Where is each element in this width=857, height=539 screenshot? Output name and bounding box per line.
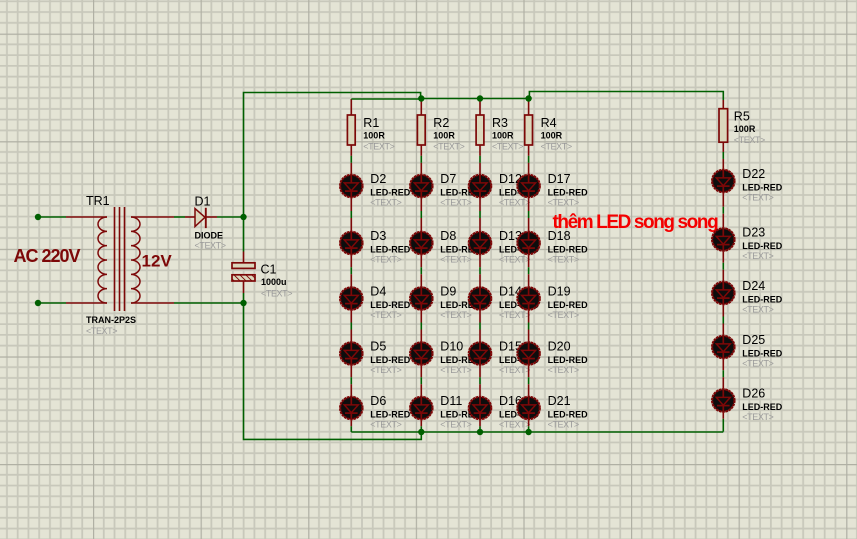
svg-text:LED-RED: LED-RED <box>370 355 410 365</box>
node F: D16 bottom junction <box>477 429 483 435</box>
svg-text:D1: D1 <box>195 195 211 209</box>
svg-text:<TEXT>: <TEXT> <box>499 255 530 265</box>
LED D23 <box>712 227 734 252</box>
wire: top bus middle segment R2-R4 <box>421 98 530 100</box>
resistor R4 <box>525 115 533 145</box>
wire: D15 to D16 <box>479 366 481 396</box>
wire: D8 to D9 <box>420 255 422 286</box>
svg-text:C1: C1 <box>261 263 277 277</box>
wire: top terminal to TR1 primary <box>41 216 107 218</box>
node D: R4 top junction <box>525 95 531 101</box>
wire: D20 to D21 <box>528 366 530 396</box>
wire: D7 to D8 <box>420 198 422 230</box>
wire: R3 to D12 <box>479 145 481 174</box>
svg-text:R3: R3 <box>492 116 508 130</box>
wire: bottom terminal to TR1 primary <box>41 302 107 304</box>
node E: D11 bottom junction <box>418 429 424 435</box>
svg-text:<TEXT>: <TEXT> <box>86 326 117 336</box>
wire: TR1 secondary top to D1 anode <box>131 216 195 218</box>
wire: node A up and top bus left segment <box>244 93 421 218</box>
svg-text:D4: D4 <box>370 285 386 299</box>
svg-text:<TEXT>: <TEXT> <box>440 420 471 430</box>
svg-text:D11: D11 <box>440 394 462 408</box>
node C: R3 top junction <box>477 95 483 101</box>
wire: D18 to D19 <box>528 255 530 286</box>
svg-text:D5: D5 <box>370 340 386 354</box>
svg-text:D8: D8 <box>440 229 456 243</box>
svg-text:LED-RED: LED-RED <box>742 182 782 192</box>
LED D2 <box>340 174 362 199</box>
svg-text:AC 220V: AC 220V <box>14 246 81 266</box>
LED D3 <box>340 231 362 256</box>
svg-text:LED-RED: LED-RED <box>548 355 588 365</box>
svg-text:<TEXT>: <TEXT> <box>541 142 572 152</box>
LED D6 <box>340 396 362 421</box>
wire: node H loop down to bottom bus at D11 column <box>244 303 422 439</box>
LED D4 <box>340 286 362 311</box>
LED D18 <box>517 231 539 256</box>
diode D1 <box>195 208 206 228</box>
svg-text:1000u: 1000u <box>261 277 287 287</box>
svg-text:<TEXT>: <TEXT> <box>370 198 401 208</box>
svg-text:<TEXT>: <TEXT> <box>370 365 401 375</box>
svg-text:<TEXT>: <TEXT> <box>548 198 579 208</box>
svg-text:<TEXT>: <TEXT> <box>499 420 530 430</box>
wire: R5 to D22 <box>722 142 724 169</box>
LED D26 <box>712 388 734 413</box>
capacitor C1 <box>232 263 255 281</box>
wire: C1 bottom to node H <box>243 281 245 303</box>
svg-text:LED-RED: LED-RED <box>548 409 588 419</box>
LED D19 <box>517 286 539 311</box>
wire: R1 to D2 <box>350 145 352 174</box>
svg-text:<TEXT>: <TEXT> <box>492 142 523 152</box>
transformer TR1 <box>98 207 140 311</box>
node: AC input bottom terminal <box>35 300 41 306</box>
wire: R2 to D7 <box>420 145 422 174</box>
svg-text:<TEXT>: <TEXT> <box>548 255 579 265</box>
LED D20 <box>517 341 539 366</box>
svg-text:100R: 100R <box>492 131 514 141</box>
svg-text:D10: D10 <box>440 340 463 354</box>
LED D14 <box>469 286 491 311</box>
svg-text:D17: D17 <box>548 172 571 186</box>
svg-text:R5: R5 <box>734 110 750 124</box>
svg-text:D7: D7 <box>440 172 456 186</box>
LED D9 <box>410 286 432 311</box>
svg-text:<TEXT>: <TEXT> <box>548 365 579 375</box>
svg-text:TR1: TR1 <box>86 194 110 208</box>
wire: D25 to D26 <box>722 359 724 388</box>
LED D22 <box>712 169 734 194</box>
wire: R4 top pin <box>528 99 530 116</box>
LED D12 <box>469 174 491 199</box>
svg-text:TRAN-2P2S: TRAN-2P2S <box>86 315 136 325</box>
wire: node A down to C1 top <box>243 220 245 263</box>
svg-text:<TEXT>: <TEXT> <box>195 241 226 251</box>
svg-text:<TEXT>: <TEXT> <box>499 365 530 375</box>
wire: D17 to D18 <box>528 198 530 230</box>
wire: D16 to bottom bus <box>479 420 481 432</box>
svg-text:LED-RED: LED-RED <box>548 300 588 310</box>
resistor R3 <box>476 115 484 145</box>
svg-text:<TEXT>: <TEXT> <box>734 135 765 145</box>
wire: D10 to D11 <box>420 366 422 396</box>
LED D10 <box>410 341 432 366</box>
LED D17 <box>517 174 539 199</box>
LED D25 <box>712 335 734 360</box>
svg-text:<TEXT>: <TEXT> <box>440 310 471 320</box>
svg-text:LED-RED: LED-RED <box>742 241 782 251</box>
svg-text:LED-RED: LED-RED <box>548 187 588 197</box>
node A: rectifier output junction <box>240 214 246 220</box>
resistor R1 <box>347 115 355 145</box>
svg-text:LED-RED: LED-RED <box>370 244 410 254</box>
svg-text:LED-RED: LED-RED <box>370 409 410 419</box>
svg-text:100R: 100R <box>734 124 756 134</box>
LED D24 <box>712 281 734 306</box>
svg-text:<TEXT>: <TEXT> <box>548 420 579 430</box>
wire: top bus right segment to R5 <box>529 92 723 109</box>
wire: R1 top to node B tap <box>351 99 419 115</box>
svg-text:LED-RED: LED-RED <box>742 348 782 358</box>
svg-text:D20: D20 <box>548 340 571 354</box>
svg-text:D25: D25 <box>742 333 765 347</box>
LED D13 <box>469 231 491 256</box>
LED D21 <box>517 396 539 421</box>
wire: R4 to D17 <box>528 145 530 174</box>
wire: D11 to bottom bus <box>420 420 422 432</box>
LED D8 <box>410 231 432 256</box>
svg-text:R1: R1 <box>363 116 379 130</box>
LED D16 <box>469 396 491 421</box>
wire: D14 to D15 <box>479 311 481 341</box>
svg-text:<TEXT>: <TEXT> <box>440 255 471 265</box>
svg-text:<TEXT>: <TEXT> <box>742 305 773 315</box>
svg-text:<TEXT>: <TEXT> <box>742 359 773 369</box>
svg-text:D19: D19 <box>548 285 571 299</box>
svg-text:<TEXT>: <TEXT> <box>742 251 773 261</box>
wire: D13 to D14 <box>479 255 481 286</box>
svg-text:D3: D3 <box>370 229 386 243</box>
LED D5 <box>340 341 362 366</box>
svg-text:D23: D23 <box>742 226 765 240</box>
wire: D5 to D6 <box>350 366 352 396</box>
svg-text:<TEXT>: <TEXT> <box>440 198 471 208</box>
wire: bottom bus <box>351 431 723 433</box>
wire: D3 to D4 <box>350 255 352 286</box>
node G: D21 bottom junction <box>525 429 531 435</box>
svg-text:D6: D6 <box>370 394 386 408</box>
svg-text:12V: 12V <box>142 252 173 271</box>
wire: D1 cathode to node A <box>207 216 242 218</box>
svg-text:<TEXT>: <TEXT> <box>440 365 471 375</box>
svg-text:<TEXT>: <TEXT> <box>370 255 401 265</box>
wire: D22 to D23 <box>722 193 724 227</box>
wire: D19 to D20 <box>528 311 530 341</box>
svg-text:100R: 100R <box>363 131 385 141</box>
wire: D9 to D10 <box>420 311 422 341</box>
node B: R2 top junction <box>418 95 424 101</box>
svg-text:LED-RED: LED-RED <box>742 294 782 304</box>
node H: ground-side junction <box>240 300 246 306</box>
svg-text:D22: D22 <box>742 167 765 181</box>
svg-text:<TEXT>: <TEXT> <box>433 142 464 152</box>
wire: D23 to D24 <box>722 252 724 281</box>
wire: D21 to bottom bus <box>528 420 530 432</box>
svg-text:LED-RED: LED-RED <box>370 187 410 197</box>
svg-text:<TEXT>: <TEXT> <box>742 193 773 203</box>
svg-text:<TEXT>: <TEXT> <box>499 310 530 320</box>
wire: D24 to D25 <box>722 305 724 334</box>
svg-text:D24: D24 <box>742 279 765 293</box>
LED D11 <box>410 396 432 421</box>
svg-text:D9: D9 <box>440 285 456 299</box>
svg-text:LED-RED: LED-RED <box>370 300 410 310</box>
svg-text:D2: D2 <box>370 172 386 186</box>
svg-text:LED-RED: LED-RED <box>548 244 588 254</box>
svg-text:R4: R4 <box>541 116 557 130</box>
svg-text:<TEXT>: <TEXT> <box>548 310 579 320</box>
svg-text:D21: D21 <box>548 394 571 408</box>
svg-text:<TEXT>: <TEXT> <box>742 412 773 422</box>
svg-text:100R: 100R <box>541 131 563 141</box>
wire: TR1 secondary bottom to node H <box>131 302 241 304</box>
svg-text:D26: D26 <box>742 387 765 401</box>
svg-text:<TEXT>: <TEXT> <box>363 142 394 152</box>
svg-text:thêm LED song song: thêm LED song song <box>553 212 719 233</box>
svg-text:LED-RED: LED-RED <box>742 402 782 412</box>
wire: R3 top pin <box>479 99 481 116</box>
wire: R2 top pin <box>420 99 422 116</box>
svg-text:<TEXT>: <TEXT> <box>370 420 401 430</box>
svg-text:<TEXT>: <TEXT> <box>499 198 530 208</box>
wire: D6 to bottom bus <box>350 420 352 432</box>
wire: D26 to bottom bus <box>722 413 724 432</box>
resistor R2 <box>417 115 425 145</box>
node: AC input top terminal <box>35 214 41 220</box>
wire: D4 to D5 <box>350 311 352 341</box>
svg-text:<TEXT>: <TEXT> <box>370 310 401 320</box>
LED D7 <box>410 174 432 199</box>
wire: D12 to D13 <box>479 198 481 230</box>
LED D15 <box>469 341 491 366</box>
svg-text:DIODE: DIODE <box>195 231 224 241</box>
svg-text:<TEXT>: <TEXT> <box>261 289 292 299</box>
wire: D2 to D3 <box>350 198 352 230</box>
resistor R5 <box>719 109 728 143</box>
svg-text:R2: R2 <box>433 116 449 130</box>
svg-text:100R: 100R <box>433 131 455 141</box>
